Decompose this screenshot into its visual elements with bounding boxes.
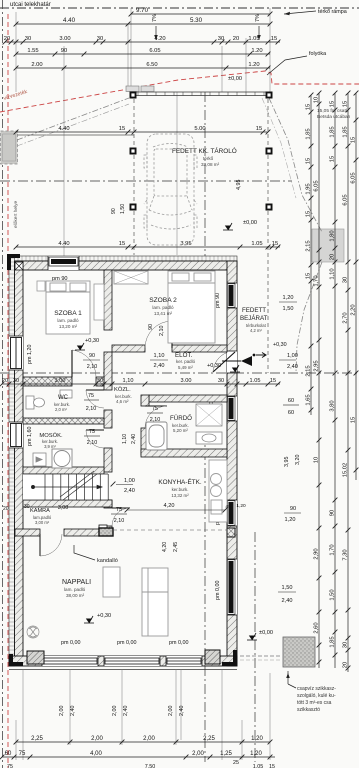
svg-text:3.00: 3.00 (181, 378, 192, 384)
szoba1 level flag (75, 343, 85, 350)
svg-text:2,0 m²: 2,0 m² (55, 407, 67, 412)
gate leaf right (141, 86, 154, 92)
svg-text:SZOBA 1: SZOBA 1 (54, 310, 82, 317)
svg-text:1,50: 1,50 (120, 204, 126, 214)
svg-text:4,2 m²: 4,2 m² (250, 328, 262, 333)
svg-text:2,15: 2,15 (306, 365, 312, 376)
wc door leaf (86, 390, 104, 408)
svg-text:15,05 fm csatl.: 15,05 fm csatl. (317, 108, 348, 114)
svg-text:tött 3 m³-es csa: tött 3 m³-es csa (297, 700, 332, 706)
svg-text:2,90: 2,90 (314, 548, 320, 559)
interior wall kamra/nappali (15, 529, 99, 536)
eloter dim divider (150, 359, 168, 361)
entrance dim divider (279, 359, 296, 361)
konyha win dim divider (284, 512, 301, 514)
svg-text:KÖZL.: KÖZL. (114, 386, 131, 393)
nightstand szoba1 (37, 281, 45, 291)
carport paving edge (134, 92, 268, 96)
svg-text:60: 60 (5, 751, 12, 757)
svg-text:30: 30 (343, 642, 349, 648)
svg-text:1,95: 1,95 (306, 183, 312, 194)
svg-text:90: 90 (290, 506, 296, 512)
szoba2 door leaf (145, 321, 172, 348)
svg-text:1,20: 1,20 (250, 751, 262, 757)
svg-text:5,49 m²: 5,49 m² (178, 365, 193, 370)
svg-text:10: 10 (314, 97, 320, 103)
left plot boundary red dashed (7, 14, 9, 768)
svg-text:75: 75 (19, 751, 26, 757)
svg-text:15: 15 (306, 211, 312, 217)
svg-text:15: 15 (330, 156, 336, 162)
vertical dimension line right col 3 (330, 91, 338, 668)
svg-text:2,40: 2,40 (179, 706, 185, 717)
svg-text:+0,30: +0,30 (85, 338, 99, 344)
carport post mid-right (266, 148, 273, 155)
svg-text:pm 0,00: pm 0,00 (117, 640, 136, 646)
svg-text:9.70: 9.70 (136, 7, 149, 14)
svg-text:2,20: 2,20 (351, 304, 357, 315)
interior wall furdo bottom (141, 449, 227, 457)
svg-text:2,10: 2,10 (150, 417, 161, 423)
svg-text:pm 90: pm 90 (215, 293, 221, 308)
svg-text:2,00: 2,00 (143, 736, 155, 742)
svg-text:15: 15 (330, 101, 336, 107)
svg-text:3,00: 3,00 (58, 505, 69, 511)
corner mark top-left (7, 254, 20, 270)
svg-text:3,20: 3,20 (295, 455, 301, 466)
kamra dim divider (111, 513, 127, 515)
wc basin (60, 390, 72, 398)
dimension line interior chain (0, 378, 280, 386)
svg-text:15: 15 (119, 241, 125, 247)
svg-text:3.00: 3.00 (55, 378, 66, 384)
dimension line carport 4.40/15/5.00/15 (14, 126, 271, 134)
svg-text:7,50: 7,50 (145, 764, 156, 768)
svg-text:1.05: 1.05 (251, 241, 262, 247)
svg-text:±0,00: ±0,00 (243, 220, 257, 226)
svg-text:±0,00: ±0,00 (259, 630, 273, 636)
exterior wall top (9, 256, 237, 270)
svg-text:1,00: 1,00 (124, 478, 135, 484)
svg-text:2,60: 2,60 (314, 622, 320, 633)
washing machine (52, 449, 72, 468)
svg-text:15: 15 (306, 158, 312, 164)
carport left edge dashed (133, 92, 135, 255)
svg-text:lam. padló: lam. padló (152, 305, 174, 310)
axis line D (vertical x255) (254, 532, 256, 762)
dimension line 20/30/3.00/30/4.20/30/20/1.05/15 (3, 36, 281, 44)
svg-text:2,10: 2,10 (87, 364, 98, 370)
dimension line bottom chain 1 (14, 736, 273, 744)
svg-text:5,20 m²: 5,20 m² (173, 428, 188, 433)
window bottom wall 3 (166, 656, 202, 666)
svg-text:60: 60 (288, 398, 294, 404)
left plot axis line (2, 0, 4, 768)
carport post top-left (130, 92, 137, 99)
dimension line 4.40/5.30 (14, 17, 273, 26)
window bottom wall 2 (104, 656, 160, 666)
svg-text:BEJÁRAT: BEJÁRAT (240, 315, 268, 322)
svg-text:75: 75 (7, 764, 13, 768)
witness lines top (16, 8, 270, 256)
svg-text:ELŐT.: ELŐT. (175, 352, 192, 359)
drain double-dash right upper (269, 98, 322, 232)
svg-text:2,00: 2,00 (112, 706, 118, 717)
svg-text:NAPPALI: NAPPALI (62, 579, 91, 586)
svg-text:2,00: 2,00 (59, 706, 65, 717)
svg-text:1,80: 1,80 (330, 230, 336, 241)
fireplace leader (74, 545, 95, 560)
furdo dim divider (147, 412, 163, 414)
carport post low-left (130, 204, 137, 211)
staircase (23, 471, 108, 500)
svg-text:utcai telekhatár: utcai telekhatár (10, 2, 51, 8)
interior wall wc/mosok (23, 418, 104, 424)
kitchen counter (209, 460, 227, 522)
svg-text:1,10: 1,10 (122, 434, 128, 444)
dresser szoba1 (94, 284, 104, 320)
corner mark bottom-right (222, 650, 237, 666)
interior wall eloter/furdo (149, 395, 227, 402)
svg-text:2.00: 2.00 (31, 62, 42, 68)
svg-text:folyóka: folyóka (309, 51, 326, 57)
svg-text:1,85: 1,85 (343, 126, 349, 137)
svg-text:1.55: 1.55 (27, 48, 38, 54)
drain double-dash left (17, 98, 129, 140)
svg-text:30: 30 (24, 504, 30, 510)
pillar bottom wall left (27, 651, 44, 664)
vertical dimension line right col 5 (351, 91, 359, 480)
window right wall (szoba2) (227, 283, 237, 308)
svg-text:15: 15 (119, 126, 125, 132)
svg-text:pm 0,00: pm 0,00 (215, 581, 221, 600)
interior wall mosok/stairs (23, 467, 104, 474)
window top wall (szoba1) (48, 256, 79, 270)
svg-text:20: 20 (330, 254, 336, 260)
svg-text:2,95: 2,95 (314, 360, 320, 371)
svg-text:75: 75 (88, 393, 94, 399)
svg-text:1.20: 1.20 (248, 62, 259, 68)
svg-text:4,20: 4,20 (162, 542, 168, 552)
axis line C (vertical x205) (204, 92, 206, 762)
svg-text:szolgáló, kulé ku-: szolgáló, kulé ku- (297, 693, 336, 699)
carport right edge dashed (267, 92, 269, 373)
soakaway (csapviz szikkaszto) (283, 637, 315, 667)
svg-text:15: 15 (256, 126, 262, 132)
exterior wall bottom (9, 656, 237, 666)
svg-text:15: 15 (270, 378, 276, 384)
svg-text:2,25: 2,25 (31, 736, 43, 742)
interior wall szoba1/wc (23, 377, 104, 386)
laundry appliance (33, 453, 46, 466)
column right wall below konyha window (227, 528, 235, 537)
svg-text:15: 15 (272, 241, 278, 247)
svg-text:38,00 m²: 38,00 m² (66, 593, 85, 598)
svg-text:térkő: térkő (203, 156, 214, 161)
svg-text:75: 75 (152, 406, 158, 412)
window left wall (szoba1) (9, 336, 23, 370)
svg-text:1.20: 1.20 (251, 48, 262, 54)
konyha dim line (127, 509, 225, 511)
svg-text:20: 20 (4, 36, 10, 42)
svg-text:1,85: 1,85 (330, 636, 336, 647)
svg-text:FÜRDŐ: FÜRDŐ (170, 415, 192, 422)
ramp leader arrow (284, 11, 316, 14)
svg-text:6,05: 6,05 (343, 194, 349, 205)
vertical dimension line right col 1 (306, 93, 314, 415)
svg-text:2,40: 2,40 (282, 598, 293, 604)
gate leaf left (126, 86, 139, 92)
kamra door leaf (112, 508, 130, 526)
svg-text:ker.burk.: ker.burk. (172, 487, 189, 492)
svg-text:4,00: 4,00 (90, 751, 102, 757)
axis line B (entrance axis) (0, 372, 359, 374)
svg-text:15: 15 (343, 101, 349, 107)
column top-left (15, 262, 23, 270)
svg-text:lam. padló: lam. padló (57, 318, 79, 323)
svg-text:2,70: 2,70 (343, 312, 349, 323)
svg-text:3,80: 3,80 (330, 400, 336, 411)
utility box right (connection shaft) (312, 229, 344, 262)
svg-text:3,9 m²: 3,9 m² (44, 444, 56, 449)
window right wall (konyha) (227, 500, 237, 526)
svg-text:13,32 m²: 13,32 m² (171, 493, 189, 498)
svg-text:25: 25 (233, 760, 239, 766)
eloter level flag (230, 365, 240, 372)
soakaway drain dashed (240, 655, 282, 657)
svg-text:1,20: 1,20 (251, 736, 263, 742)
svg-text:75: 75 (89, 429, 95, 435)
wc dim divider (84, 399, 99, 401)
terrace dim divider (278, 591, 296, 593)
bathroom sink (196, 432, 222, 444)
szoba2 win dim divider (279, 301, 297, 303)
dimension line carport bottom 4.40/15/3.95/1.05/15 (14, 241, 281, 249)
svg-text:30: 30 (25, 36, 31, 42)
svg-text:1.05: 1.05 (250, 378, 261, 384)
svg-text:2,15: 2,15 (306, 240, 312, 251)
szoba1 dim divider (83, 359, 100, 361)
interior wall vertical (rooms/corridor) (104, 270, 112, 536)
svg-text:1,50: 1,50 (282, 585, 293, 591)
svg-text:+0,30: +0,30 (273, 342, 287, 348)
interior wall stairs/kamra (23, 500, 112, 507)
entrance arrow (222, 356, 252, 366)
svg-text:6,05: 6,05 (351, 172, 357, 183)
svg-text:KONYHA-ÉTK.: KONYHA-ÉTK. (158, 477, 202, 486)
svg-text:2,40: 2,40 (154, 363, 165, 369)
street boundary line (utcai telekhatar) (0, 7, 359, 9)
svg-text:30: 30 (218, 36, 224, 42)
svg-text:2,45: 2,45 (173, 542, 179, 552)
bathtub (146, 422, 167, 450)
svg-text:5.00: 5.00 (194, 126, 205, 132)
bed szoba1 (46, 281, 90, 334)
mosok door leaf (86, 430, 104, 448)
shower (196, 404, 222, 426)
exterior wall right (227, 261, 237, 666)
svg-text:3,95: 3,95 (284, 457, 290, 468)
window left wall (mosok) (9, 422, 23, 448)
svg-text:4.40: 4.40 (58, 241, 69, 247)
svg-text:2,40: 2,40 (131, 434, 137, 444)
dimension line 9.70 (129, 7, 273, 16)
svg-text:30: 30 (218, 378, 224, 384)
sofa (142, 568, 168, 636)
svg-text:6.50: 6.50 (146, 62, 157, 68)
svg-text:45: 45 (225, 504, 231, 510)
svg-text:1,10: 1,10 (330, 268, 336, 279)
svg-text:2,25: 2,25 (203, 736, 215, 742)
kamra-nappali door leaf (40, 534, 62, 556)
svg-text:20: 20 (3, 506, 9, 512)
dining table (103, 567, 120, 597)
svg-text:±0,00: ±0,00 (228, 76, 242, 82)
svg-text:csapvíz szikkasz-: csapvíz szikkasz- (297, 686, 336, 692)
exterior wall left (9, 256, 23, 666)
svg-text:2,10: 2,10 (86, 406, 97, 412)
axis line A (carport axis) (0, 180, 292, 182)
carport post top-right (266, 92, 273, 99)
svg-text:4,20: 4,20 (164, 503, 175, 509)
svg-text:2,40: 2,40 (70, 706, 76, 717)
soakaway leader (287, 671, 289, 684)
furdo door leaf (145, 406, 167, 428)
svg-text:60: 60 (288, 410, 294, 416)
svg-text:2,10: 2,10 (87, 440, 98, 446)
vertical dimension line right col 2 (314, 91, 322, 668)
svg-text:15: 15 (269, 764, 275, 768)
svg-text:pm 1,60: pm 1,60 (27, 427, 33, 446)
svg-text:ker. padló: ker. padló (176, 359, 196, 364)
svg-text:FEDETT: FEDETT (242, 307, 266, 314)
svg-text:2,10: 2,10 (114, 518, 125, 524)
svg-text:15: 15 (351, 417, 357, 423)
svg-text:1,25: 1,25 (220, 751, 232, 757)
svg-text:15: 15 (351, 137, 357, 143)
utility connection line (18, 134, 135, 136)
svg-text:4.40: 4.40 (58, 126, 69, 132)
svg-text:2,00: 2,00 (168, 706, 174, 717)
terrace door right wall (nappali) (227, 559, 237, 615)
terrace edge line (9, 669, 237, 671)
svg-text:13,20 m²: 13,20 m² (59, 324, 78, 329)
svg-text:2,10: 2,10 (159, 326, 165, 337)
svg-text:SZOBA 2: SZOBA 2 (149, 297, 177, 304)
svg-text:90: 90 (89, 353, 95, 359)
svg-text:15,02: 15,02 (343, 463, 349, 478)
svg-text:2,40: 2,40 (124, 488, 135, 494)
slope arrow left (155, 26, 157, 40)
svg-text:4,6 m²: 4,6 m² (116, 399, 129, 404)
svg-text:előkert helye: előkert helye (13, 200, 19, 228)
svg-text:90: 90 (61, 48, 67, 54)
interior wall szoba2/eloter (112, 345, 227, 352)
svg-text:3,00 m²: 3,00 m² (35, 520, 50, 525)
vertical dimension line right col 4 (343, 91, 351, 672)
svg-text:lam. padló: lam. padló (64, 587, 86, 592)
svg-text:90: 90 (111, 208, 117, 214)
svg-text:WC: WC (58, 395, 69, 401)
carport post mid-left (130, 148, 137, 155)
nappali level flag (84, 616, 94, 623)
svg-text:1,05: 1,05 (253, 764, 264, 768)
svg-text:1,65: 1,65 (306, 394, 312, 405)
plant nappali (27, 626, 39, 638)
window right wall (furdo) (227, 396, 237, 421)
utility box left (gas/water meter) (1, 131, 18, 164)
svg-text:KAMRA: KAMRA (30, 508, 50, 514)
svg-text:15: 15 (306, 104, 312, 110)
svg-text:13,41 m²: 13,41 m² (154, 311, 173, 316)
svg-text:30: 30 (97, 36, 103, 42)
svg-text:20: 20 (233, 36, 239, 42)
furdo win dim divider (283, 404, 299, 406)
svg-text:1,20: 1,20 (285, 517, 296, 523)
utility red dashed diagonal (0, 71, 359, 112)
car in carport (144, 134, 197, 245)
svg-text:1,10: 1,10 (123, 378, 134, 384)
window bottom wall 1 (42, 656, 98, 666)
svg-text:6.05: 6.05 (149, 48, 160, 54)
entrance walk symbol (254, 353, 267, 358)
svg-text:33,08 m²: 33,08 m² (201, 162, 220, 167)
svg-text:2,40: 2,40 (287, 364, 298, 370)
svg-text:MOSÓK.: MOSÓK. (39, 432, 63, 439)
svg-text:pm 0,00: pm 0,00 (169, 640, 188, 646)
svg-text:1,50: 1,50 (283, 306, 294, 312)
svg-text:1,70: 1,70 (330, 544, 336, 555)
drain double-dash right lower (296, 262, 322, 372)
dimension line bottom chain 2 (0, 751, 275, 759)
kitchen/nappali dashed boundary (113, 529, 227, 531)
svg-text:7,30: 7,30 (343, 549, 349, 560)
svg-text:1,85: 1,85 (330, 126, 336, 137)
svg-text:90: 90 (148, 324, 154, 330)
svg-text:1,20: 1,20 (236, 503, 246, 509)
svg-text:+0,30: +0,30 (97, 613, 111, 619)
svg-text:30: 30 (343, 277, 349, 283)
svg-text:20: 20 (343, 662, 349, 668)
pillar bottom wall right (205, 650, 220, 664)
svg-text:2,00: 2,00 (91, 736, 103, 742)
svg-text:pm 1,20: pm 1,20 (27, 345, 33, 364)
svg-text:3.00: 3.00 (59, 36, 70, 42)
svg-text:75: 75 (116, 507, 122, 513)
svg-text:1,20: 1,20 (283, 295, 294, 301)
slope arrow right (258, 26, 260, 40)
svg-text:1,10: 1,10 (154, 353, 165, 359)
svg-text:10: 10 (314, 457, 320, 463)
wardrobe szoba2 (114, 271, 148, 284)
svg-text:90: 90 (330, 510, 336, 516)
svg-text:1,00: 1,00 (287, 353, 298, 359)
witness lines bottom (16, 669, 270, 760)
svg-text:20: 20 (2, 378, 8, 384)
svg-text:4.40: 4.40 (63, 17, 76, 24)
svg-text:7%: 7% (255, 14, 261, 22)
dimension line 2.00/6.50/1.20 (14, 62, 271, 70)
carport level flag (223, 223, 233, 230)
szoba1 door leaf (72, 350, 96, 377)
svg-text:1,85: 1,85 (306, 128, 312, 139)
wc toilet (26, 396, 45, 409)
svg-text:3.95: 3.95 (180, 241, 191, 247)
svg-text:pm 0,00: pm 0,00 (61, 640, 80, 646)
svg-text:5.30: 5.30 (190, 17, 203, 24)
bed szoba2 (168, 271, 215, 343)
corner mark bottom-left (9, 654, 23, 666)
